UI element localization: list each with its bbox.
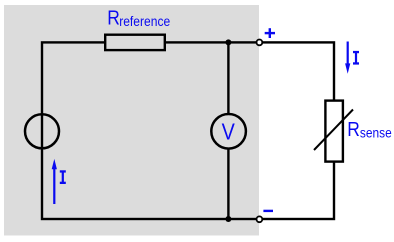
svg-text:R: R xyxy=(347,119,360,141)
svg-text:reference: reference xyxy=(119,14,170,30)
svg-text:R: R xyxy=(107,8,120,30)
svg-text:sense: sense xyxy=(360,126,392,142)
svg-text:V: V xyxy=(222,118,236,144)
